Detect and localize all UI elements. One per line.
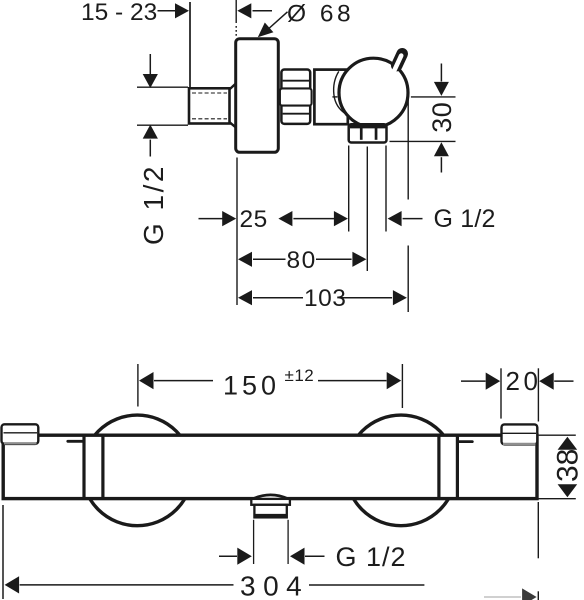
dim G1/2 (outlet stub) extension lines [253, 520, 255, 564]
svg-text:G 1/2: G 1/2 [434, 205, 496, 233]
valve body [314, 70, 347, 125]
left union nut lines [82, 437, 85, 498]
left wall connector [2, 424, 39, 444]
dim 38 extension lines [539, 434, 576, 436]
knurled union nut [281, 70, 310, 124]
dim 20 extension lines [500, 368, 502, 418]
temperature knob lever [397, 54, 402, 66]
circle-right extension line [407, 98, 409, 200]
pipe-to-escutcheon hub [229, 83, 236, 127]
dim G1/2 (pipe) arrows [149, 54, 151, 74]
left tick [68, 440, 83, 443]
svg-text:80: 80 [287, 247, 317, 274]
svg-text:G 1/2: G 1/2 [336, 542, 407, 572]
thermostat handle (circle) [339, 58, 408, 127]
svg-text:15 - 23: 15 - 23 [81, 0, 157, 26]
svg-text:±12: ±12 [285, 366, 315, 385]
leader line to escutcheon [266, 12, 288, 32]
svg-text:304: 304 [240, 570, 309, 600]
dim 30 arrows [440, 64, 442, 82]
right escutcheon circle [346, 415, 457, 526]
dim 25 row [199, 218, 223, 220]
dim 38 arrows [558, 437, 578, 450]
escutcheon face extension line (bottom rows) [236, 158, 238, 306]
dim 20 arrows [461, 380, 486, 382]
wall extension line [189, 2, 191, 87]
escutcheon face extension line (top, part dotted) [235, 0, 237, 23]
right union nut lines [437, 437, 440, 498]
bar body [3, 435, 537, 498]
dim 103 row [238, 290, 252, 305]
shower outlet stub [253, 495, 289, 501]
dim G1/2 (outlet stub) arrows [219, 555, 237, 557]
svg-text:25: 25 [240, 206, 268, 233]
right wall connector [502, 424, 538, 444]
svg-text:30: 30 [427, 102, 457, 133]
outlet nut [349, 124, 387, 142]
escutcheon [236, 39, 279, 153]
svg-text:G 1/2: G 1/2 [138, 164, 169, 245]
svg-text:38: 38 [552, 449, 584, 482]
dim 80 row [238, 252, 252, 267]
dim 304 [2, 505, 4, 599]
right tick [459, 440, 473, 443]
dim 15-23 lines and arrows [158, 10, 176, 12]
left escutcheon circle [82, 415, 193, 526]
supply pipe G1/2 [189, 88, 230, 123]
dim 150 arrows [139, 372, 154, 389]
body/knob junction arc [334, 71, 347, 114]
svg-text:Ø 68: Ø 68 [287, 1, 354, 28]
dim 30 extension lines [411, 96, 456, 98]
svg-text:150: 150 [223, 371, 280, 401]
dim 150 extension lines [137, 364, 139, 407]
svg-text:20: 20 [506, 366, 542, 396]
svg-text:103: 103 [304, 285, 346, 312]
outlet extension lines [348, 146, 350, 232]
